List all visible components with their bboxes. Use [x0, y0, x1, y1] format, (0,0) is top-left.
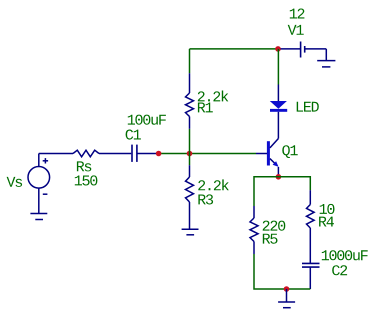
- junction dot (supply node): [275, 46, 281, 52]
- value label 10: [320, 204, 335, 214]
- junction dot (emitter node): [276, 174, 282, 180]
- value label 1000uF: [322, 250, 368, 260]
- resistor R5: [250, 206, 258, 254]
- voltage source Vs: [28, 154, 50, 214]
- capacitor C1: [132, 145, 137, 162]
- label R1: [198, 103, 213, 113]
- wire base node up to R1: [189, 129, 191, 154]
- ground (bottom): [278, 289, 295, 308]
- label C1: [126, 130, 141, 140]
- label C2: [332, 265, 347, 275]
- wire R1 top to supply rail: [189, 49, 191, 73]
- label R3: [198, 194, 213, 204]
- wire bottom rail: [254, 254, 310, 289]
- ground (under R3): [182, 229, 199, 235]
- label R4: [319, 217, 334, 227]
- wire emitter node rail: [254, 177, 310, 206]
- wire C1 to node: [138, 153, 158, 155]
- value label 100uF: [128, 115, 166, 125]
- wire base node down to R3: [189, 154, 191, 166]
- label Rs: [77, 161, 91, 171]
- wire supply node to battery: [281, 48, 301, 50]
- resistor Rs: [73, 150, 99, 157]
- value label 2.2k: [198, 179, 229, 190]
- label R5: [263, 234, 278, 244]
- junction dot: [156, 151, 162, 157]
- label LED: [297, 102, 319, 112]
- label Vs: [7, 177, 23, 187]
- value label 2.2k: [198, 91, 229, 102]
- ground (under Vs): [30, 214, 47, 220]
- value label 12: [290, 9, 305, 19]
- label Q1: [282, 145, 297, 158]
- diode LED: [270, 85, 287, 139]
- battery V1: [301, 42, 327, 61]
- wire supply rail horizontal: [190, 48, 279, 50]
- transistor Q1: [256, 139, 279, 175]
- resistor R3: [186, 165, 194, 229]
- wire Vs to Rs: [39, 153, 73, 155]
- wire node to base junction: [157, 153, 190, 155]
- label V1: [288, 25, 304, 35]
- capacitor C2: [302, 263, 320, 289]
- wire Rs to C1: [99, 153, 131, 155]
- junction dot (ground node): [284, 286, 290, 292]
- wire base junction to Q1: [190, 153, 257, 155]
- junction dot (base node): [187, 151, 193, 157]
- value label 150: [75, 175, 98, 185]
- wire supply node down to LED: [277, 49, 279, 85]
- ground (battery V1): [317, 61, 335, 67]
- value label 220: [263, 221, 286, 231]
- resistor R4: [307, 190, 315, 263]
- resistor R1: [186, 73, 194, 129]
